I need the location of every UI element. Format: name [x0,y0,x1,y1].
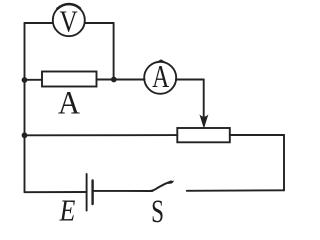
wire rheostat right lead [230,134,284,136]
battery E [59,174,93,228]
wire battery to switch [93,190,153,192]
wire ammeter right lead [176,79,204,81]
wire bottom right segment [187,189,284,192]
wire resistor right lead to ammeter [97,79,145,81]
svg-text:E: E [59,194,76,227]
node mid-left junction (dot) [22,132,28,138]
wire voltmeter right lead [85,22,114,24]
svg-text:S: S [151,194,164,227]
ammeter A (meter circle) [144,60,176,95]
voltmeter V (meter circle) [53,4,85,39]
wire right vertical [283,135,285,190]
wire bottom left segment [25,191,87,193]
svg-text:V: V [60,5,79,39]
wire right drop of voltmeter loop [113,23,115,80]
rheostat R [177,128,230,142]
wire middle horizontal to rheostat [25,134,178,136]
wire top-left horizontal (voltmeter left lead) [25,22,53,24]
resistor A [42,72,97,121]
wire wiper drop [203,80,205,117]
node right junction (dot) [111,77,117,83]
svg-text:A: A [152,60,170,95]
switch S [151,181,174,230]
wiper arrow [199,114,208,129]
wire resistor left lead [25,79,43,81]
wire left vertical bus [24,23,26,192]
node left junction (dot) [22,77,28,83]
svg-text:A: A [58,84,80,120]
